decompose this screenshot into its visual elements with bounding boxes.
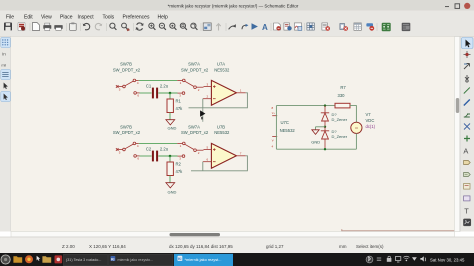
svg-text:Place: Place <box>60 14 73 20</box>
resistor R1 <box>167 99 183 113</box>
svg-text:NE5532: NE5532 <box>214 67 230 72</box>
node junction between zeners <box>324 126 326 128</box>
svg-text:SW7B: SW7B <box>120 62 132 67</box>
right toolbar <box>460 37 474 232</box>
sheet frame bottom edge <box>342 229 455 231</box>
svg-text:GND: GND <box>168 126 177 131</box>
ground mid zener <box>311 127 320 145</box>
undo <box>83 23 90 29</box>
wire SW7B.6 to C1 <box>140 92 152 94</box>
svg-text:*miernik jako rezystor (mierni: *miernik jako rezystor (miernik jako rez… <box>168 3 299 8</box>
svg-text:Sat Nov 30, 23:45: Sat Nov 30, 23:45 <box>430 257 465 262</box>
window title bar <box>0 0 474 11</box>
svg-text:SW_DPDT_x2: SW_DPDT_x2 <box>113 67 141 72</box>
hierarchy navigator <box>203 23 211 30</box>
schematic red icon <box>18 23 25 31</box>
window buttons <box>445 4 460 9</box>
top toolbar <box>0 22 474 37</box>
svg-text:T: T <box>464 207 469 216</box>
run simulation <box>252 23 258 29</box>
svg-text:Help: Help <box>158 14 169 20</box>
switch SW7B (upper) <box>113 62 141 98</box>
op-amp U7B <box>203 124 246 168</box>
svg-text:mil: mil <box>1 64 6 68</box>
op-amp U7A <box>203 62 246 106</box>
svg-text:Ki: Ki <box>111 257 114 261</box>
wire junction to R1 <box>169 93 171 99</box>
horizontal scrollbar <box>11 232 455 238</box>
node junction bottom of zener chain <box>324 148 326 150</box>
svg-text:47k: 47k <box>176 169 184 174</box>
op-amp U7C power unit <box>272 106 296 149</box>
find <box>110 23 117 30</box>
svg-text:R7: R7 <box>340 85 346 90</box>
symbol fields table icon <box>354 23 361 30</box>
wire U7A feedback output to inverting input <box>189 93 248 108</box>
status bar <box>0 237 474 253</box>
window button 3 active <box>174 254 233 266</box>
zoom selection <box>191 23 198 30</box>
svg-text:dx 120,65 dy 116,84 dist 167,9: dx 120,65 dy 116,84 dist 167,95 <box>169 244 233 249</box>
svg-text:D_Zener: D_Zener <box>332 134 348 139</box>
svg-text:47k: 47k <box>176 106 184 111</box>
capacitor C2 <box>146 146 169 161</box>
svg-text:V-: V- <box>272 140 274 143</box>
leave sheet up arrow (greyed) <box>216 24 220 31</box>
wire lower SW7B.4 to SW7A.1 <box>139 142 177 144</box>
svg-text:Preferences: Preferences <box>123 14 150 20</box>
wire C2 to lower SW7A.3 <box>158 155 177 157</box>
edit symbol fields icon <box>366 23 374 30</box>
switch SW7A (lower) <box>177 124 209 160</box>
open pcb editor icon <box>382 23 391 32</box>
svg-text:2.2u: 2.2u <box>160 83 169 88</box>
annotate icon <box>274 23 281 31</box>
wire top rail to R7 <box>276 105 335 107</box>
launcher icons <box>13 256 22 263</box>
wire R2 to ground <box>169 176 171 183</box>
svg-text:Z 2.00: Z 2.00 <box>62 244 75 249</box>
svg-text:Tools: Tools <box>103 14 115 20</box>
taskbar <box>0 253 474 266</box>
svg-text:SW_DPDT_x2: SW_DPDT_x2 <box>113 130 141 135</box>
save <box>4 23 12 31</box>
window button 1 <box>64 254 108 266</box>
svg-text:File: File <box>6 14 14 20</box>
new page <box>33 23 40 31</box>
wire R1 to ground <box>169 113 171 120</box>
svg-text:in: in <box>2 52 6 57</box>
zoom out <box>159 23 166 30</box>
window button 2 <box>109 254 174 266</box>
bom icon <box>322 23 330 31</box>
svg-text:SW7A: SW7A <box>188 62 200 67</box>
ground under R1 <box>166 120 177 131</box>
svg-text:SW7A: SW7A <box>188 124 200 129</box>
left toolbar <box>0 37 11 232</box>
menu bar <box>0 11 474 22</box>
vertical scrollbar <box>455 37 461 232</box>
ground under R2 <box>166 183 177 195</box>
svg-text:C2: C2 <box>146 146 152 151</box>
wire C1 to SW7A.3 <box>158 92 177 94</box>
zoom objects <box>180 23 187 30</box>
svg-text:VDC: VDC <box>366 118 375 123</box>
svg-text:SW_DPDT_x2: SW_DPDT_x2 <box>181 130 209 135</box>
ERC icon <box>284 23 292 31</box>
switch SW7B (lower) <box>113 124 141 160</box>
netlist grid icon <box>307 23 314 30</box>
svg-text:330: 330 <box>338 93 346 98</box>
diode D2 zener <box>321 127 348 149</box>
diode D1 zener <box>321 106 348 127</box>
voltage source V7 <box>351 112 376 133</box>
svg-text:Select item(s): Select item(s) <box>356 244 384 249</box>
svg-text:U7A: U7A <box>217 62 225 67</box>
svg-text:V7: V7 <box>366 112 372 117</box>
svg-text:mm: mm <box>339 244 347 249</box>
paste <box>70 23 77 31</box>
svg-text:(31) Tesla 3 rozłado...: (31) Tesla 3 rozłado... <box>66 258 101 262</box>
capacitor C1 <box>146 83 169 98</box>
svg-text:NE5532: NE5532 <box>214 130 230 135</box>
svg-text:NE5532: NE5532 <box>280 128 296 133</box>
svg-text:dc(1): dc(1) <box>366 124 376 129</box>
redo (greyed) <box>95 23 102 29</box>
selection arrow (active) <box>462 38 474 49</box>
plot <box>54 25 62 30</box>
svg-text:SW7B: SW7B <box>120 124 132 129</box>
rotate icon blue <box>242 24 248 29</box>
wire U7C V+ rail (left vertical) <box>275 106 277 150</box>
tray icons <box>366 256 426 263</box>
wire lower SW7B.6 to C2 <box>140 155 152 157</box>
start button <box>1 255 10 264</box>
wire junction to R2 <box>169 156 171 162</box>
svg-text:Edit: Edit <box>24 14 33 20</box>
footprint assign icon <box>340 24 348 31</box>
svg-text:U7B: U7B <box>217 124 225 129</box>
node junction top of zener chain <box>324 104 326 106</box>
mouse cursor <box>200 110 205 116</box>
node junction above R2 <box>169 155 172 158</box>
svg-text:*miernik jako rezyst...: *miernik jako rezyst... <box>185 257 222 262</box>
wire R7 to V7 <box>350 106 356 123</box>
svg-text:U7C: U7C <box>281 120 289 125</box>
svg-text:View: View <box>41 14 52 20</box>
resistor R7 <box>335 85 350 108</box>
wire junction to ground stub <box>316 126 326 128</box>
wire stub below U7A feedback <box>202 108 204 122</box>
svg-text:GND: GND <box>311 140 320 145</box>
svg-text:R2: R2 <box>176 162 182 167</box>
svg-text:Inspect: Inspect <box>78 14 95 20</box>
sim icon <box>294 23 301 30</box>
find replace <box>122 23 130 31</box>
svg-text:C1: C1 <box>146 83 152 88</box>
font A icon <box>262 23 268 32</box>
zoom in <box>149 23 156 30</box>
svg-text:A: A <box>262 23 268 32</box>
refresh <box>136 23 144 30</box>
svg-text:miernik jako rezysto...: miernik jako rezysto... <box>118 258 154 262</box>
svg-text:R1: R1 <box>176 99 182 104</box>
svg-text:Ki: Ki <box>178 257 181 261</box>
wire bottom rail <box>276 148 356 150</box>
node junction above R1 <box>169 92 172 95</box>
canvas <box>11 37 455 232</box>
resistor R2 <box>167 162 183 176</box>
svg-text:D_Zener: D_Zener <box>332 117 348 122</box>
svg-text:A: A <box>463 147 468 156</box>
svg-text:grid 1,27: grid 1,27 <box>266 244 284 249</box>
wire V7 to bottom rail <box>355 133 357 149</box>
zoom fit <box>170 23 177 30</box>
print <box>43 23 51 30</box>
wire SW7B.4 to SW7A.1 <box>139 79 177 81</box>
svg-text:X 120,65 Y 116,84: X 120,65 Y 116,84 <box>89 244 126 249</box>
leave sheet icon <box>229 24 236 29</box>
svg-text:SW_DPDT_x2: SW_DPDT_x2 <box>181 67 209 72</box>
svg-text:rrr: rrr <box>355 126 358 130</box>
svg-text:2.2u: 2.2u <box>160 146 169 151</box>
drc control icon <box>402 23 411 31</box>
svg-text:GND: GND <box>168 190 177 195</box>
wire U7B feedback output to inverting input <box>191 156 247 171</box>
switch SW7A (upper) <box>177 62 209 98</box>
